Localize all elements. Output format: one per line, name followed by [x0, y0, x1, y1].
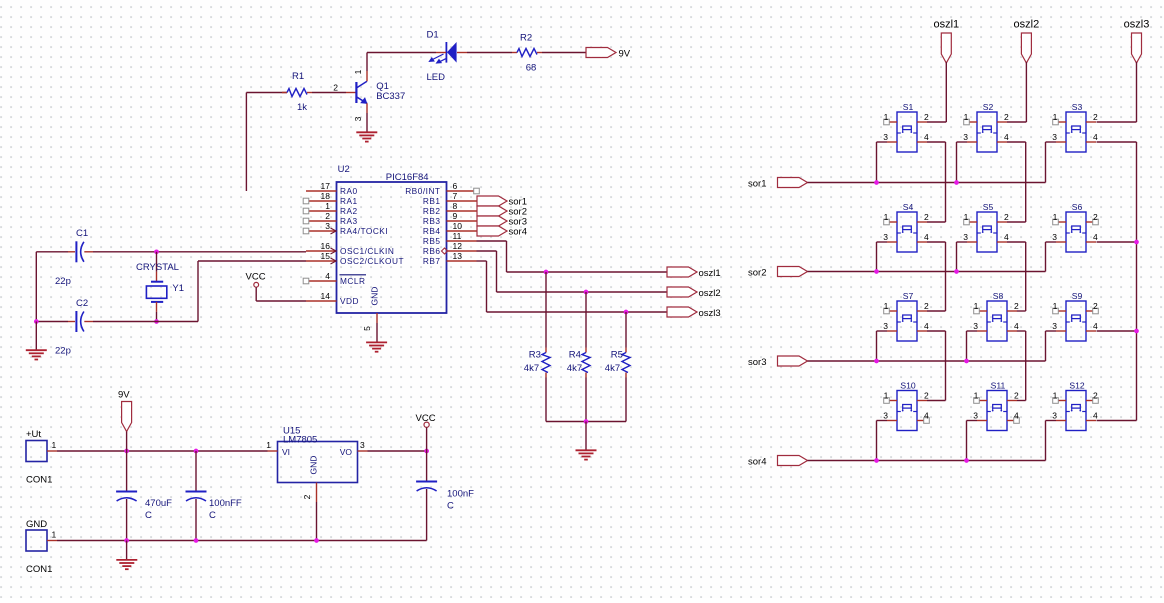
svg-text:2: 2 — [1093, 301, 1098, 311]
svg-text:2: 2 — [924, 301, 929, 311]
switch S9 — [1066, 301, 1086, 341]
svg-text:VDD: VDD — [340, 296, 359, 306]
pin 2 RA3 of U2 — [303, 211, 357, 226]
wire — [195, 499, 197, 541]
svg-text:470uF: 470uF — [145, 498, 172, 509]
svg-text:4: 4 — [1014, 411, 1019, 421]
svg-text:4: 4 — [1014, 321, 1019, 331]
wire — [876, 331, 878, 361]
port oszl3 — [667, 307, 697, 317]
port oszl3 — [1132, 33, 1142, 63]
wire — [1046, 141, 1057, 143]
svg-text:CON1: CON1 — [26, 564, 52, 575]
svg-text:oszl1: oszl1 — [933, 19, 959, 31]
pin 4 MCLR of U2 — [303, 271, 366, 286]
wire — [126, 432, 128, 452]
switch S1 — [897, 112, 917, 152]
pin 2 of S2 — [997, 112, 1009, 122]
pin 1 VI of U15 — [266, 440, 290, 457]
wire — [945, 331, 947, 401]
pin 11 RB5 of U2 — [423, 231, 477, 246]
switch S2 — [977, 112, 997, 152]
wire — [467, 52, 512, 54]
svg-text:OSC2/CLKOUT: OSC2/CLKOUT — [340, 256, 404, 266]
pin 1 of S11 — [974, 391, 987, 404]
wire — [967, 330, 978, 332]
junction — [1134, 329, 1139, 334]
pin 15 OSC2/CLKOUT of U2 — [306, 251, 404, 266]
svg-text:3: 3 — [963, 232, 968, 242]
port sor2 — [778, 267, 808, 277]
svg-text:16: 16 — [321, 241, 331, 251]
wire — [1046, 420, 1057, 422]
wire — [1045, 142, 1047, 183]
svg-text:VI: VI — [282, 447, 290, 457]
resistor R5 — [622, 348, 630, 378]
svg-text:RB7: RB7 — [423, 256, 441, 266]
svg-text:1: 1 — [1053, 301, 1058, 311]
switch S12 — [1066, 391, 1086, 431]
wire — [945, 142, 947, 222]
wire — [1045, 242, 1047, 272]
svg-text:15: 15 — [321, 251, 331, 261]
pin 18 RA1 of U2 — [303, 191, 357, 206]
wire — [625, 378, 627, 422]
wire — [497, 291, 668, 293]
svg-text:4k7: 4k7 — [524, 363, 539, 374]
svg-text:U2: U2 — [338, 164, 350, 175]
pin 1 of S10 — [884, 391, 897, 404]
svg-text:3: 3 — [325, 221, 330, 231]
svg-text:S7: S7 — [903, 291, 914, 301]
svg-text:1: 1 — [325, 201, 330, 211]
junction — [584, 290, 589, 295]
svg-text:4: 4 — [1004, 232, 1009, 242]
connector CON1 GND — [26, 530, 47, 551]
marker pin 12 RB6 — [442, 248, 448, 254]
junction — [124, 449, 129, 454]
wire — [35, 252, 37, 322]
svg-text:4: 4 — [924, 321, 929, 331]
wire — [927, 330, 946, 332]
pin 4 of S10 — [917, 411, 929, 424]
wire — [876, 242, 878, 272]
wire — [545, 272, 547, 348]
svg-text:R5: R5 — [611, 349, 623, 360]
svg-text:oszl2: oszl2 — [1014, 19, 1040, 31]
svg-text:4: 4 — [924, 232, 929, 242]
wire — [1136, 142, 1138, 421]
svg-text:3: 3 — [1052, 411, 1057, 421]
svg-text:CON1: CON1 — [26, 475, 52, 486]
svg-text:MCLR: MCLR — [340, 276, 366, 286]
pin 4 of S11 — [1007, 411, 1019, 424]
pin 2 of S5 — [997, 212, 1009, 222]
wire — [966, 421, 968, 461]
svg-text:22p: 22p — [55, 276, 71, 287]
svg-text:oszl3: oszl3 — [1124, 19, 1150, 31]
crystal Y1 — [146, 252, 166, 322]
wire — [1045, 331, 1047, 361]
svg-text:sor4: sor4 — [748, 456, 766, 467]
ground — [356, 131, 377, 133]
svg-text:18: 18 — [321, 191, 331, 201]
wire — [487, 311, 668, 313]
svg-text:sor2: sor2 — [748, 267, 766, 278]
switch S11 — [987, 391, 1007, 431]
wire — [625, 312, 627, 348]
svg-text:S3: S3 — [1072, 102, 1083, 112]
pin 3 of Q1 — [366, 103, 368, 113]
svg-text:1: 1 — [884, 391, 889, 401]
regulator U15 LM7805 body — [278, 442, 358, 483]
svg-text:4: 4 — [1093, 411, 1098, 421]
pin 1 of S5 — [964, 212, 977, 225]
svg-text:3: 3 — [883, 321, 888, 331]
capacitor C1 — [68, 241, 93, 262]
svg-text:2: 2 — [325, 211, 330, 221]
svg-text:1: 1 — [52, 440, 57, 450]
pin 3 VO of U15 — [340, 440, 368, 457]
power port 9V — [122, 402, 132, 432]
capacitor C 100nFF — [186, 491, 207, 493]
junction — [424, 449, 429, 454]
svg-text:7: 7 — [453, 191, 458, 201]
pin 3 of S5 — [963, 232, 977, 242]
svg-text:1: 1 — [884, 301, 889, 311]
wire — [877, 420, 888, 422]
wire — [1045, 421, 1047, 461]
svg-text:2: 2 — [924, 212, 929, 222]
ground — [26, 349, 47, 351]
pin 12 RB6 of U2 — [423, 241, 477, 256]
wire — [36, 321, 68, 323]
svg-text:3: 3 — [883, 232, 888, 242]
pin 1 of S6 — [1053, 212, 1066, 225]
wire — [477, 250, 497, 252]
svg-text:RB0/INT: RB0/INT — [405, 186, 440, 196]
wire — [1017, 330, 1026, 332]
svg-text:C1: C1 — [76, 228, 88, 239]
svg-text:RA2: RA2 — [340, 206, 358, 216]
junction — [964, 458, 969, 463]
wire — [585, 422, 587, 451]
wire — [426, 451, 428, 482]
wire — [808, 182, 1046, 184]
wire — [316, 502, 318, 541]
pin 4 of S3 — [1086, 132, 1098, 142]
pin 2 of S7 — [917, 301, 929, 311]
svg-text:LM7805: LM7805 — [283, 434, 317, 445]
switch S7 — [897, 301, 917, 341]
wire — [956, 142, 958, 183]
svg-text:100nF: 100nF — [447, 489, 474, 500]
wire — [1136, 62, 1138, 122]
port oszl1 — [941, 33, 951, 63]
wire — [506, 241, 508, 272]
wire — [195, 451, 197, 492]
svg-text:D1: D1 — [427, 30, 439, 41]
svg-text:1: 1 — [974, 391, 979, 401]
wire — [957, 241, 968, 243]
svg-text:2: 2 — [924, 391, 929, 401]
svg-text:1: 1 — [884, 212, 889, 222]
pin 3 of S3 — [1052, 132, 1066, 142]
svg-text:1: 1 — [964, 112, 969, 122]
svg-text:2: 2 — [1093, 391, 1098, 401]
svg-text:GND: GND — [26, 519, 47, 530]
pin 2 GND of U15 — [302, 456, 319, 502]
port oszl2 — [1021, 33, 1031, 63]
svg-text:5: 5 — [362, 326, 372, 331]
port sor4 — [778, 456, 808, 466]
svg-text:8: 8 — [453, 201, 458, 211]
wire — [57, 540, 427, 542]
wire — [376, 323, 378, 342]
pin 3 of S9 — [1052, 321, 1066, 331]
svg-text:VCC: VCC — [416, 413, 436, 424]
pin 2 of S1 — [917, 112, 929, 122]
svg-text:sor4: sor4 — [509, 227, 527, 238]
svg-text:2: 2 — [924, 112, 929, 122]
pin 3 of S4 — [883, 232, 897, 242]
svg-text:10: 10 — [453, 221, 463, 231]
wire — [877, 141, 888, 143]
svg-text:1: 1 — [884, 112, 889, 122]
wire — [1025, 142, 1027, 222]
wire — [1025, 242, 1027, 311]
svg-text:2: 2 — [1014, 301, 1019, 311]
pin 2 of S6 — [1086, 212, 1098, 225]
pin 9 RB3 of U2 — [423, 211, 477, 226]
port sor4 — [477, 226, 507, 236]
svg-text:S10: S10 — [900, 381, 916, 391]
pin 13 RB7 of U2 — [423, 251, 477, 266]
svg-text:oszl1: oszl1 — [699, 268, 721, 279]
junction — [624, 310, 629, 315]
svg-text:LED: LED — [427, 72, 446, 83]
svg-text:PIC16F84: PIC16F84 — [386, 172, 429, 183]
capacitor C 470uF — [116, 491, 137, 493]
wire — [808, 360, 1046, 362]
ground — [576, 449, 597, 451]
capacitor C 100nF — [416, 481, 437, 483]
wire — [945, 62, 947, 122]
svg-text:4: 4 — [1093, 132, 1098, 142]
pin 3 RA4/TOCKI of U2 — [303, 221, 388, 236]
resistor R3 — [542, 348, 550, 378]
switch S4 — [897, 212, 917, 252]
wire — [366, 53, 368, 72]
ground — [366, 341, 387, 343]
power VCC — [424, 422, 429, 451]
wire — [367, 52, 436, 54]
svg-text:GND: GND — [370, 287, 380, 306]
svg-text:3: 3 — [963, 132, 968, 142]
wire — [486, 261, 488, 312]
diode D1 (LED) — [428, 42, 467, 64]
svg-text:sor1: sor1 — [748, 178, 766, 189]
wire — [256, 300, 306, 302]
svg-text:1: 1 — [52, 530, 57, 540]
svg-text:sor3: sor3 — [748, 357, 766, 368]
wire — [1007, 141, 1026, 143]
wire — [927, 310, 946, 312]
junction — [124, 538, 129, 543]
switch S6 — [1066, 212, 1086, 252]
svg-text:S9: S9 — [1072, 291, 1083, 301]
wire — [808, 460, 1046, 462]
resistor R4 — [582, 348, 590, 378]
pin 1 of S2 — [964, 112, 977, 125]
svg-text:1: 1 — [1053, 391, 1058, 401]
pin 4 of S6 — [1086, 232, 1098, 242]
wire — [1046, 241, 1057, 243]
port sor1 — [778, 178, 808, 188]
connector CON1 +Ut — [26, 441, 47, 462]
wire — [877, 241, 888, 243]
resistor R2 — [512, 49, 542, 57]
junction — [154, 249, 159, 254]
svg-text:3: 3 — [1052, 321, 1057, 331]
junction — [544, 270, 549, 275]
svg-text:R2: R2 — [520, 33, 532, 44]
svg-text:S12: S12 — [1069, 381, 1085, 391]
svg-text:S6: S6 — [1072, 202, 1083, 212]
pin 5 GND of U2 — [362, 287, 380, 331]
svg-text:1: 1 — [1053, 212, 1058, 222]
junction — [154, 319, 159, 324]
port oszl2 — [667, 287, 697, 297]
svg-text:4: 4 — [924, 411, 929, 421]
svg-text:2: 2 — [1014, 391, 1019, 401]
pin 1 of S1 — [884, 112, 897, 125]
svg-text:4: 4 — [1093, 232, 1098, 242]
junction — [874, 180, 879, 185]
pin 10 RB4 of U2 — [423, 221, 477, 236]
wire — [876, 421, 878, 461]
pin 3 of S2 — [963, 132, 977, 142]
wire — [1017, 400, 1026, 402]
pin 1 of CON1 GND — [47, 540, 57, 542]
pin 4 of S8 — [1007, 321, 1019, 331]
port sor3 — [477, 216, 507, 226]
svg-text:R4: R4 — [569, 349, 581, 360]
svg-text:14: 14 — [321, 291, 331, 301]
svg-text:17: 17 — [321, 181, 331, 191]
svg-text:Y1: Y1 — [172, 283, 184, 294]
pin 17 RA0 of U2 — [306, 181, 358, 196]
pin 1 of Q1 — [366, 71, 368, 81]
svg-text:S4: S4 — [903, 202, 914, 212]
pin 2 of S8 — [1007, 301, 1019, 311]
wire — [1097, 121, 1137, 123]
svg-text:OSC1/CLKIN: OSC1/CLKIN — [340, 246, 394, 256]
pin 6 RB0/INT of U2 — [405, 181, 479, 196]
wire — [496, 251, 498, 292]
wire — [1007, 241, 1026, 243]
pin 3 of S8 — [973, 321, 987, 331]
pin 4 of S2 — [997, 132, 1009, 142]
pin 4 of S1 — [917, 132, 929, 142]
switch S5 — [977, 212, 997, 252]
svg-text:RB1: RB1 — [423, 196, 441, 206]
junction — [874, 359, 879, 364]
wire — [927, 221, 946, 223]
pin 2 of S12 — [1086, 391, 1098, 404]
svg-text:VCC: VCC — [246, 272, 266, 283]
junction — [314, 538, 319, 543]
wire — [927, 141, 946, 143]
wire — [927, 121, 946, 123]
pin 2 of S4 — [917, 212, 929, 222]
wire — [126, 451, 128, 492]
svg-text:VO: VO — [340, 447, 353, 457]
svg-text:9V: 9V — [118, 390, 130, 401]
pin 2 of S9 — [1086, 301, 1098, 314]
port oszl1 — [667, 267, 697, 277]
wire — [1007, 221, 1026, 223]
wire — [57, 450, 268, 452]
svg-text:GND: GND — [309, 456, 319, 475]
svg-text:3: 3 — [1052, 132, 1057, 142]
svg-text:2: 2 — [1004, 212, 1009, 222]
pin 2 of Q1 — [346, 92, 356, 94]
svg-text:C2: C2 — [76, 298, 88, 309]
pin 3 of S1 — [883, 132, 897, 142]
svg-text:RB5: RB5 — [423, 236, 441, 246]
svg-text:S1: S1 — [903, 102, 914, 112]
svg-text:RB4: RB4 — [423, 226, 441, 236]
wire — [1007, 121, 1026, 123]
svg-text:BC337: BC337 — [376, 91, 405, 102]
svg-text:R1: R1 — [292, 71, 304, 82]
svg-text:1: 1 — [964, 212, 969, 222]
junction — [954, 269, 959, 274]
pin 1 of S9 — [1053, 301, 1066, 314]
port sor2 — [477, 206, 507, 216]
wire — [1097, 241, 1137, 243]
wire — [927, 241, 946, 243]
wire — [945, 242, 947, 311]
svg-text:2: 2 — [333, 82, 338, 92]
wire — [198, 260, 306, 262]
svg-text:4: 4 — [1093, 321, 1098, 331]
svg-text:22p: 22p — [55, 346, 71, 357]
port sor3 — [778, 356, 808, 366]
wire — [126, 499, 128, 541]
svg-text:3: 3 — [973, 411, 978, 421]
svg-text:1: 1 — [266, 440, 271, 450]
svg-text:11: 11 — [453, 231, 462, 241]
svg-text:3: 3 — [360, 440, 365, 450]
svg-text:9: 9 — [453, 211, 458, 221]
pin 1 of S3 — [1053, 112, 1066, 125]
wire — [1017, 310, 1026, 312]
pin 3 of S6 — [1052, 232, 1066, 242]
wire — [585, 292, 587, 348]
svg-text:+Ut: +Ut — [26, 429, 41, 440]
pin 4 of S7 — [917, 321, 929, 331]
svg-text:4: 4 — [1004, 132, 1009, 142]
junction — [954, 180, 959, 185]
pin 8 RB2 of U2 — [423, 201, 477, 216]
wire — [957, 141, 968, 143]
wire — [35, 322, 37, 351]
junction — [964, 359, 969, 364]
wire — [197, 261, 199, 322]
svg-text:3: 3 — [883, 411, 888, 421]
